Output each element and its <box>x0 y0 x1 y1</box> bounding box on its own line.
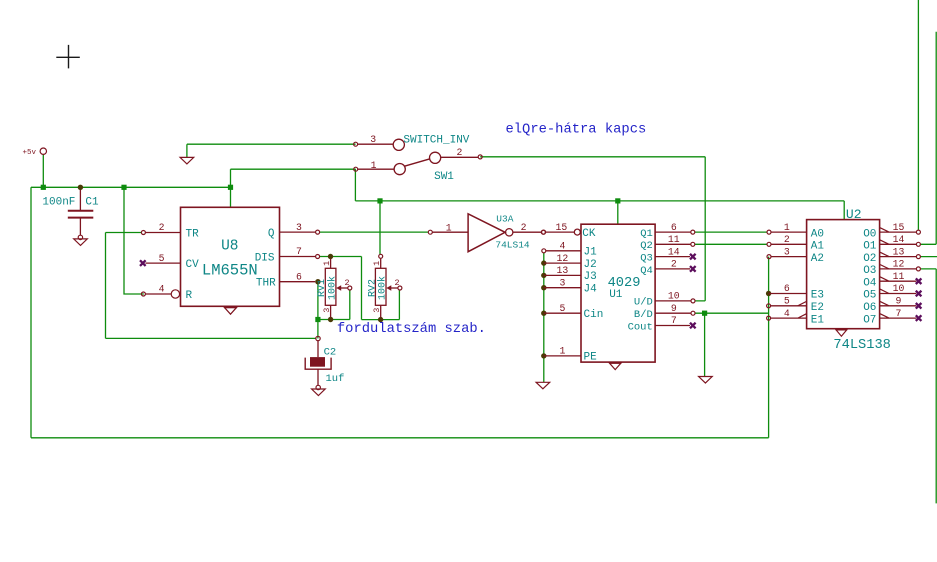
svg-text:7: 7 <box>671 315 677 326</box>
svg-text:1: 1 <box>372 261 382 266</box>
wire Q2 to A1 <box>695 243 768 245</box>
svg-text:2: 2 <box>784 234 790 245</box>
svg-text:PE: PE <box>584 352 598 364</box>
svg-text:J4: J4 <box>584 284 598 296</box>
pin 4 R <box>145 293 171 295</box>
svg-text:O7: O7 <box>863 314 876 326</box>
pin 2 Q4 <box>655 268 690 270</box>
svg-text:A0: A0 <box>811 228 824 240</box>
pin 6 Q1 <box>655 231 691 233</box>
node PE junction <box>541 353 546 358</box>
svg-text:CV: CV <box>186 259 200 271</box>
pin 9 B/D <box>655 312 691 314</box>
svg-text:A1: A1 <box>811 241 825 253</box>
pin 3 J4 <box>544 287 581 289</box>
pin 7 O7 <box>880 317 917 319</box>
pin 13 J3 <box>544 274 581 276</box>
svg-text:Q4: Q4 <box>640 265 653 277</box>
svg-text:TR: TR <box>186 228 200 240</box>
wire U1 VCC drop <box>617 201 619 224</box>
svg-text:11: 11 <box>893 271 905 282</box>
decoder U2 body <box>807 220 880 329</box>
node C1 rail junction <box>78 185 83 190</box>
pin 11 Q2 <box>655 243 691 245</box>
pin 3 Q <box>280 231 316 233</box>
svg-text:74LS14: 74LS14 <box>495 239 530 250</box>
svg-text:3: 3 <box>322 308 332 313</box>
svg-text:O2: O2 <box>863 253 876 265</box>
U2 ground pin <box>836 328 848 330</box>
svg-text:4: 4 <box>159 284 165 295</box>
node +5V rail junction <box>41 185 46 190</box>
svg-text:6: 6 <box>784 283 790 294</box>
svg-text:C2: C2 <box>324 346 337 358</box>
svg-text:74LS138: 74LS138 <box>833 338 891 353</box>
ground below C2 <box>316 385 320 389</box>
svg-text:5: 5 <box>559 303 565 314</box>
wire RV2 bottom loop <box>362 257 400 320</box>
svg-text:U/D: U/D <box>634 297 653 309</box>
wire THR node vertical <box>317 282 319 339</box>
pin 1 A0 <box>771 231 807 233</box>
node J4 junction <box>541 285 546 290</box>
svg-text:2: 2 <box>159 222 165 233</box>
svg-text:1uf: 1uf <box>326 373 345 385</box>
pin 15 CK <box>574 229 580 235</box>
svg-text:SW1: SW1 <box>434 171 454 183</box>
svg-text:SWITCH_INV: SWITCH_INV <box>403 134 469 146</box>
svg-text:14: 14 <box>668 246 680 257</box>
svg-text:U1: U1 <box>609 289 623 301</box>
svg-text:11: 11 <box>668 234 680 245</box>
svg-text:100k: 100k <box>327 276 339 300</box>
ground below SW1 pin3 <box>180 157 194 164</box>
pin 10 O5 <box>880 293 917 295</box>
svg-text:1: 1 <box>371 160 377 171</box>
node J3 junction <box>541 273 546 278</box>
svg-text:6: 6 <box>671 222 677 233</box>
svg-text:100nF: 100nF <box>42 197 75 209</box>
wire RV1 wiper drop <box>349 290 351 320</box>
pin 2 A1 <box>771 243 807 245</box>
svg-text:E1: E1 <box>811 314 825 326</box>
svg-text:1: 1 <box>784 222 790 233</box>
wire O1 riser <box>920 32 936 245</box>
svg-text:4: 4 <box>559 241 565 252</box>
pin 13 O2 <box>880 256 917 258</box>
svg-text:+5v: +5v <box>23 149 37 157</box>
svg-text:U3A: U3A <box>496 214 513 225</box>
pin 4 E1 <box>771 317 807 319</box>
wire SW1 pin1 to +5V rail <box>231 169 356 207</box>
svg-text:C1: C1 <box>85 197 99 209</box>
wire O2 exit <box>920 256 937 258</box>
ground below U1 inputs <box>536 382 550 389</box>
counter U1 body <box>581 224 655 362</box>
node J2 junction <box>541 260 546 265</box>
switch SW1 <box>354 142 358 146</box>
svg-text:J2: J2 <box>584 259 597 271</box>
svg-text:O3: O3 <box>863 265 876 277</box>
sheet origin crosshair <box>56 45 80 69</box>
ground below C1 <box>78 235 82 239</box>
svg-text:O1: O1 <box>863 241 877 253</box>
svg-text:3: 3 <box>370 134 376 145</box>
pin 1 PE <box>544 355 581 357</box>
pin 9 O6 <box>880 305 917 307</box>
svg-text:Q3: Q3 <box>640 253 653 265</box>
wire reset loop pin4 <box>124 187 144 294</box>
wire B/D to enable column <box>695 312 769 314</box>
pin 14 Q3 <box>655 256 690 258</box>
node B/D junction <box>702 311 707 316</box>
node U1 VCC junction <box>615 198 620 203</box>
potentiometer RV2 <box>375 268 386 305</box>
pin 4 J1 <box>546 250 581 252</box>
node RV2 VCC junction <box>377 198 382 203</box>
node Cin junction <box>541 311 546 316</box>
pin 12 O3 <box>880 268 917 270</box>
svg-text:13: 13 <box>557 265 569 276</box>
U1 ground pin <box>609 362 621 364</box>
wire +5V symbol drop <box>42 154 44 187</box>
svg-text:O5: O5 <box>863 290 876 302</box>
pin 15 O0 <box>880 231 917 233</box>
U8 ground pin <box>224 306 237 308</box>
power +5V <box>40 148 46 154</box>
pin 14 O1 <box>880 243 917 245</box>
svg-text:Q: Q <box>268 228 275 240</box>
svg-text:O4: O4 <box>863 277 877 289</box>
potentiometer RV1 <box>325 268 336 305</box>
node reset loop junction <box>121 185 126 190</box>
svg-text:U2: U2 <box>846 207 862 222</box>
pin 5 E2 <box>771 305 807 307</box>
node U8 VCC junction <box>228 185 233 190</box>
svg-text:12: 12 <box>893 259 905 270</box>
node RV1 bottom junction <box>328 317 333 322</box>
pin 5 Cin <box>544 312 581 314</box>
wire DIS to RV1/RV2 top <box>320 256 362 258</box>
svg-text:U8: U8 <box>221 239 238 255</box>
svg-text:10: 10 <box>668 291 680 302</box>
svg-text:3: 3 <box>559 277 565 288</box>
capacitor C1 <box>79 189 81 210</box>
wire TR feedback loop <box>106 233 317 339</box>
wire VCC distribution rail <box>355 169 844 201</box>
svg-text:14: 14 <box>893 234 905 245</box>
svg-text:LM655N: LM655N <box>202 262 258 280</box>
wire right +5V riser to A2/E pins <box>768 257 770 438</box>
svg-text:2: 2 <box>457 147 463 158</box>
inverter U3A <box>468 214 505 252</box>
svg-text:J1: J1 <box>584 247 598 259</box>
svg-text:3: 3 <box>784 246 790 257</box>
svg-text:2: 2 <box>344 278 349 288</box>
pin 2 TR <box>145 232 180 234</box>
capacitor C2 <box>316 336 320 340</box>
wire U2 VCC drop <box>843 201 845 220</box>
wire SW1 pin3 to ground <box>187 144 356 157</box>
wire RV2 wiper drop <box>398 290 400 320</box>
wire O0 riser <box>917 0 919 230</box>
svg-text:15: 15 <box>556 222 568 233</box>
svg-text:fordulatszám szab.: fordulatszám szab. <box>337 321 486 337</box>
pin 12 J2 <box>544 262 581 264</box>
svg-text:2: 2 <box>671 259 677 270</box>
svg-text:THR: THR <box>256 277 276 289</box>
svg-text:1: 1 <box>559 346 565 357</box>
svg-text:B/D: B/D <box>634 309 653 321</box>
wire RV1 bottom loop <box>318 319 350 321</box>
node THR junction <box>315 279 320 284</box>
svg-text:9: 9 <box>671 303 677 314</box>
pin 5 CV <box>146 262 181 264</box>
wire left +5V drop <box>30 187 32 437</box>
svg-text:2: 2 <box>395 278 400 288</box>
svg-text:9: 9 <box>896 296 902 307</box>
svg-text:1: 1 <box>446 223 452 234</box>
wire SW1 pin2 to U1 U/D <box>480 157 705 301</box>
svg-text:6: 6 <box>296 271 302 282</box>
svg-text:5: 5 <box>784 296 790 307</box>
svg-text:12: 12 <box>557 253 569 264</box>
wire U8 Q output to U3A input <box>320 231 429 233</box>
svg-text:3: 3 <box>372 308 382 313</box>
svg-text:5: 5 <box>159 253 165 264</box>
svg-text:R: R <box>186 290 193 302</box>
node E3 junction <box>766 291 771 296</box>
pin 11 O4 <box>880 280 917 282</box>
svg-text:CK: CK <box>582 228 596 240</box>
svg-text:J3: J3 <box>584 271 597 283</box>
wire Q1 to A0 <box>695 231 768 233</box>
svg-text:elQre-hátra kapcs: elQre-hátra kapcs <box>506 122 647 138</box>
svg-text:Q2: Q2 <box>640 240 653 252</box>
svg-text:A2: A2 <box>811 253 824 265</box>
pin 6 THR <box>280 281 316 283</box>
svg-text:E2: E2 <box>811 302 824 314</box>
svg-text:3: 3 <box>296 222 302 233</box>
svg-text:E3: E3 <box>811 290 824 302</box>
svg-text:100k: 100k <box>377 276 389 300</box>
wire bottom +5V bus <box>31 437 769 439</box>
svg-text:15: 15 <box>893 222 905 233</box>
svg-text:O6: O6 <box>863 302 876 314</box>
svg-text:O0: O0 <box>863 228 876 240</box>
svg-text:4: 4 <box>784 308 790 319</box>
wire +5V rail <box>31 186 231 188</box>
wire B/D ground drop <box>704 313 706 376</box>
wire O3 drop <box>920 269 936 504</box>
svg-text:7: 7 <box>296 246 302 257</box>
node RV2 bottom junction <box>378 317 383 322</box>
wire RV2 VCC drop <box>379 201 381 255</box>
ground below B/D <box>699 377 713 384</box>
svg-text:2: 2 <box>521 222 527 233</box>
pin 6 E3 <box>769 293 807 295</box>
svg-text:DIS: DIS <box>255 252 275 264</box>
svg-text:Q1: Q1 <box>640 228 653 240</box>
svg-text:13: 13 <box>893 246 905 257</box>
node RV1 bottom rail junction <box>315 317 320 322</box>
svg-text:Cout: Cout <box>628 321 653 333</box>
svg-text:1: 1 <box>322 261 332 266</box>
pin 7 DIS <box>280 256 316 258</box>
op-amp U8 body <box>181 207 280 306</box>
svg-text:Cin: Cin <box>584 309 604 321</box>
pin 7 Cout <box>655 325 690 327</box>
svg-text:7: 7 <box>896 308 902 319</box>
wire U1 J-input chain to ground <box>543 253 545 383</box>
pin 3 A2 <box>771 256 807 258</box>
pin 10 U/D <box>655 300 691 302</box>
node RV1 top junction <box>328 254 333 259</box>
svg-text:10: 10 <box>893 283 905 294</box>
